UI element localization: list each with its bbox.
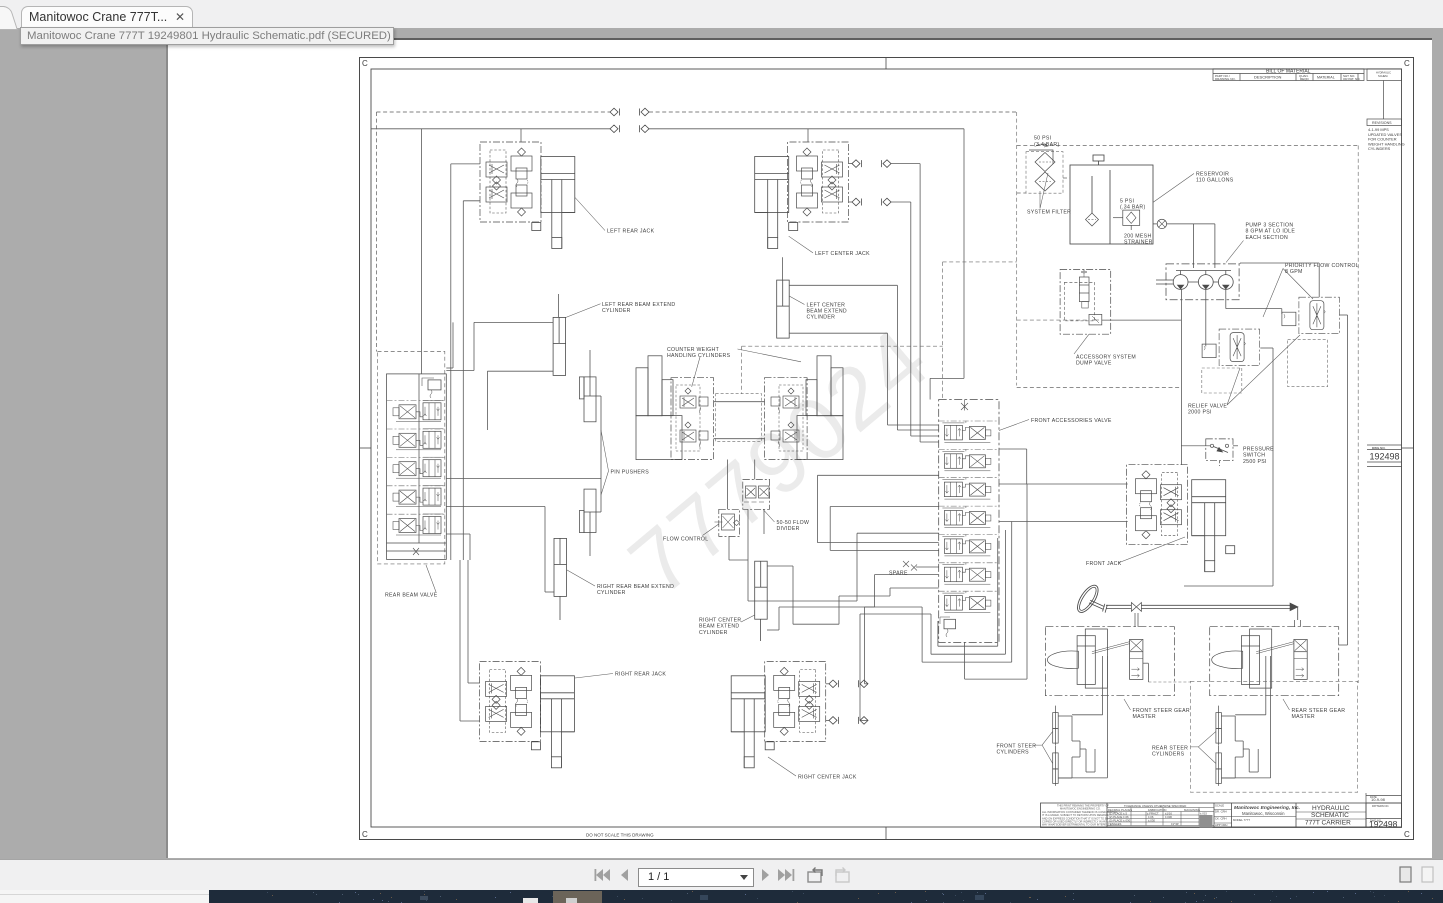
svg-text:SWITCH: SWITCH [1243,453,1265,459]
svg-text:DR. CRH: DR. CRH [1215,810,1227,814]
svg-text:STRAINER: STRAINER [1124,240,1153,246]
valve assembly RIGHT REAR JACK [480,661,541,741]
right cw valve box [765,378,808,460]
svg-text:50 PSI: 50 PSI [1034,136,1051,142]
svg-text:DATE: DATE [1370,795,1377,799]
svg-text:PUMP 3 SECTION: PUMP 3 SECTION [1246,223,1294,229]
valve assembly RIGHT CENTER JACK [765,661,826,741]
revision note [1368,127,1405,151]
svg-text:MASTER: MASTER [1133,714,1156,720]
svg-text:CYLINDERS: CYLINDERS [1152,752,1185,758]
title block small print [1042,804,1118,827]
svg-text:±.030: ±.030 [1148,819,1155,823]
cylinders REAR STEER CYLINDERS [1216,706,1222,746]
svg-text:777T CARRIER: 777T CARRIER [1305,820,1351,827]
schematic goes here [360,58,1414,840]
svg-text:REVISIONS: REVISIONS [1372,121,1392,125]
valve PRIORITY FLOW CONTROL and RELIEF VALVE 2000 PSI [1282,297,1340,334]
svg-text:C: C [1404,59,1410,68]
zone ticks [885,58,887,70]
svg-text:PATTERN NO.: PATTERN NO. [1372,804,1389,808]
svg-text:C: C [362,830,368,839]
title block [1041,793,1402,828]
nested L buses to front accessories valve [818,474,939,476]
svg-text:PRIORITY FLOW CONTROL: PRIORITY FLOW CONTROL [1285,263,1359,269]
svg-text:REAR STEER GEAR: REAR STEER GEAR [1292,708,1346,714]
wire: top supply and pilot buses [371,112,1017,400]
svg-text:FRONT ACCESSORIES VALVE: FRONT ACCESSORIES VALVE [1031,418,1112,424]
svg-text:EACH SECTION: EACH SECTION [1246,235,1289,241]
svg-text:CYLINDERS: CYLINDERS [997,750,1030,756]
svg-text:FLOW CONTROL: FLOW CONTROL [663,537,708,543]
wire: bank bottom wrap-around loops [905,484,1027,679]
svg-text:2000 PSI: 2000 PSI [1188,410,1212,416]
svg-text:RIGHT REAR BEAM EXTEND: RIGHT REAR BEAM EXTEND [597,584,674,590]
wire: center distribution buses [728,460,939,631]
zone letters C [362,59,1410,839]
right date boxes [1366,795,1402,797]
svg-text:HYDRAULIC: HYDRAULIC [1312,805,1350,812]
valve assembly LEFT CENTER JACK [788,142,849,222]
company col rows [1232,816,1297,818]
master cylinder REAR STEER GEAR MASTER [1210,627,1339,696]
master cylinder FRONT STEER GEAR MASTER [1045,627,1174,696]
boundary: rear steer dashed enclosure [1190,681,1357,792]
tolerance table inner lines [1107,807,1214,809]
svg-text:Manitowoc, Wisconsin: Manitowoc, Wisconsin [1242,811,1285,816]
svg-text:FRONT JACK: FRONT JACK [1086,561,1122,567]
cylinders FRONT STEER CYLINDERS [1053,706,1059,746]
svg-text:RIGHT REAR JACK: RIGHT REAR JACK [615,672,666,678]
svg-text:DWG NO.: DWG NO. [1370,819,1382,823]
svg-text:5 PSI: 5 PSI [1120,199,1134,205]
node SPARE [903,561,939,571]
svg-text:SYSTEM FILTER: SYSTEM FILTER [1027,210,1071,216]
svg-text:FRONT STEER GEAR: FRONT STEER GEAR [1133,708,1190,714]
dashed box between [716,394,762,442]
svg-text:8 GPM AT LO IDLE: 8 GPM AT LO IDLE [1246,229,1296,235]
steering wheel and shaft [1074,582,1301,627]
quick disconnect pair on buses [610,108,649,116]
valve assembly LEFT REAR JACK [480,142,541,222]
svg-text:RELIEF VALVE: RELIEF VALVE [1188,404,1227,410]
right cylinder stack (mirror) [817,356,831,416]
down to right rear jack [467,560,469,683]
svg-text:7779024: 7779024 [611,309,948,614]
valve 50-50 FLOW DIVIDER [743,479,770,509]
svg-text:WAY WHATSOEVER DETRIMENTAL TO: WAY WHATSOEVER DETRIMENTAL TO OUR INTERE… [1042,823,1112,827]
svg-text:(.34 BAR): (.34 BAR) [1120,205,1145,211]
svg-text:REAR STEER: REAR STEER [1152,746,1188,752]
sheet number box 192498 [1367,445,1402,467]
valve bank FRONT ACCESSORIES VALVE [939,400,999,643]
svg-text:CK. CRH: CK. CRH [1215,817,1227,821]
svg-text:CYLINDER: CYLINDER [807,315,836,321]
left cw valve box [671,378,714,460]
reservoir RESERVOIR 110 GALLONS [1070,155,1153,244]
pump PUMP 3 SECTION [1166,264,1239,300]
svg-text:2500 PSI: 2500 PSI [1243,459,1267,465]
svg-text:8 GPM: 8 GPM [1285,269,1303,275]
revision strip header box [1367,69,1402,126]
svg-text:BEAM EXTEND: BEAM EXTEND [699,624,739,630]
svg-text:MODEL 777T: MODEL 777T [1233,818,1250,822]
svg-text:SPARE: SPARE [889,571,908,577]
svg-text:SCALE: SCALE [1215,804,1224,808]
svg-text:ACCESSORY SYSTEM: ACCESSORY SYSTEM [1076,355,1136,361]
svg-text:110 GALLONS: 110 GALLONS [1196,178,1234,184]
scale/dr column rows [1214,809,1232,811]
svg-text:BEAM EXTEND: BEAM EXTEND [807,309,847,315]
filter SYSTEM FILTER [1026,152,1063,194]
wire: front steer gear outlet [1143,663,1191,682]
svg-text:REAR BEAM VALVE: REAR BEAM VALVE [385,593,438,599]
svg-text:CYLINDER: CYLINDER [602,308,631,314]
svg-text:LEFT REAR JACK: LEFT REAR JACK [607,229,655,235]
svg-text:DUMP VALVE: DUMP VALVE [1076,361,1112,367]
svg-text:DIVIDER: DIVIDER [777,526,800,532]
svg-text:CYLINDER: CYLINDER [597,590,626,596]
svg-text:SCHEMATIC: SCHEMATIC [1311,812,1349,819]
right side buses [446,478,601,480]
svg-text:LEFT CENTER JACK: LEFT CENTER JACK [815,251,870,257]
bottom relief [944,619,956,629]
svg-text:±.030: ±.030 [1165,815,1172,819]
valve FLOW CONTROL [715,509,740,536]
dashed pilot bus [377,112,1017,352]
svg-text:ANGLES: ANGLES [1110,822,1121,826]
svg-text:CYLINDER: CYLINDER [699,630,728,636]
svg-text:200 MESH: 200 MESH [1124,234,1151,240]
wire: pump output lines [1181,289,1281,464]
svg-text:SCHEM.: SCHEM. [1378,74,1388,78]
boundary: power unit dashed enclosure [742,112,1359,683]
svg-text:CYLINDERS: CYLINDERS [1368,146,1391,151]
switch PRESSURE SWITCH 2500 PSI [1181,439,1238,466]
svg-text:50-50 FLOW: 50-50 FLOW [777,520,810,526]
svg-text:(3.4 BAR): (3.4 BAR) [1034,142,1059,148]
svg-text:MASTER: MASTER [1292,714,1315,720]
valve bank REAR BEAM VALVE [378,352,445,564]
valve assembly FRONT JACK [1127,465,1188,545]
solid supply bus [371,128,610,130]
relief at top [428,380,441,390]
svg-text:HANDLING CYLINDERS: HANDLING CYLINDERS [667,353,731,359]
table BILL OF MATERIAL [1213,69,1364,81]
svg-text:RESERVOIR: RESERVOIR [1196,172,1229,178]
svg-text:±1°30': ±1°30' [1171,822,1179,826]
svg-text:PIN PUSHERS: PIN PUSHERS [611,470,650,476]
svg-text:FRONT STEER: FRONT STEER [997,744,1037,750]
svg-text:PRESSURE: PRESSURE [1243,447,1274,453]
bottom tank rows [387,542,447,544]
svg-text:APP CRH: APP CRH [1215,823,1227,827]
svg-text:DESCRIPTION: DESCRIPTION [1254,75,1281,80]
cylinder LEFT REAR BEAM EXTEND [553,317,566,375]
right center beam cylinder wires [767,565,793,567]
svg-text:HYDRAULIC: HYDRAULIC [1376,71,1391,75]
left cylinder stack [648,356,662,416]
svg-text:LEFT REAR BEAM EXTEND: LEFT REAR BEAM EXTEND [602,302,675,308]
cylinder LEFT CENTER BEAM EXTEND [777,280,790,338]
svg-text:MATERIAL: MATERIAL [1317,76,1335,80]
shutoff valve at reservoir outlet [1153,219,1215,268]
svg-text:REQD: REQD [1300,77,1310,81]
bank internal supply verticals [419,129,601,721]
cylinder RIGHT CENTER BEAM EXTEND [755,561,768,619]
svg-text:COUNTER WEIGHT: COUNTER WEIGHT [667,347,720,353]
cylinder RIGHT REAR BEAM EXTEND [554,538,567,596]
svg-text:DWG NO.: DWG NO. [1372,446,1386,450]
cylinders PIN PUSHERS [579,350,601,556]
svg-text:RIGHT CENTER JACK: RIGHT CENTER JACK [798,775,857,781]
svg-text:DO NOT SCALE THIS DRAWING: DO NOT SCALE THIS DRAWING [586,833,654,838]
cylinders COUNTER WEIGHT HANDLING [636,356,843,460]
svg-text:C: C [362,59,368,68]
svg-text:RIGHT CENTER: RIGHT CENTER [699,618,741,624]
svg-text:DRAWING NO.: DRAWING NO. [1215,77,1236,81]
svg-text:MACHINING: MACHINING [1184,808,1200,812]
wire: priority flow control runs [1184,263,1348,645]
svg-text:192498: 192498 [1370,452,1400,462]
svg-text:±.015: ±.015 [1200,812,1207,816]
svg-text:LEFT CENTER: LEFT CENTER [807,302,846,308]
valve ACCESSORY SYSTEM DUMP VALVE [1060,269,1181,334]
gray viewer background [166,38,1432,858]
svg-text:C: C [1404,830,1410,839]
svg-text:OR PAT. NO.: OR PAT. NO. [1343,77,1361,81]
